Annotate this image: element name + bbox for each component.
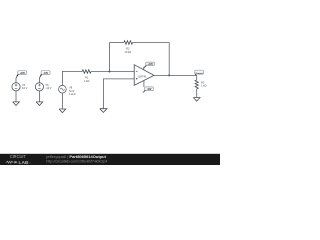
- net flag -10V on V2: [39, 71, 50, 79]
- ground below V2: [36, 102, 43, 106]
- net flag Output: [195, 70, 204, 75]
- ground below R3: [193, 98, 200, 102]
- wire: feedback left vertical: [109, 43, 111, 72]
- svg-text:Output: Output: [196, 72, 203, 75]
- wire: V2 top stub: [38, 78, 40, 83]
- wire: op-amp noninverting input to ground drop: [103, 79, 134, 109]
- svg-text:LM741: LM741: [138, 75, 147, 79]
- svg-text:+10V: +10V: [147, 64, 153, 66]
- wire: feedback right vertical down to output: [168, 43, 170, 76]
- resistor R1: [82, 70, 91, 83]
- op-amp OA1 LM741: [134, 65, 154, 86]
- wire: V2 bottom to ground: [38, 91, 40, 102]
- node junction at feedback tap: [109, 71, 111, 73]
- wire: V3 bottom to ground: [61, 93, 63, 109]
- wire: V3 top corner to R1 left: [62, 72, 82, 86]
- svg-text:10 V: 10 V: [22, 86, 28, 90]
- ground below V1: [13, 102, 20, 106]
- voltage source V1: [12, 83, 28, 91]
- svg-text:10 kΩ: 10 kΩ: [124, 50, 131, 54]
- voltage source V2: [35, 83, 52, 91]
- svg-text:-10 V: -10 V: [45, 86, 51, 90]
- wire: feedback top right horizontal: [133, 42, 170, 44]
- wire: V1 bottom to ground: [15, 91, 17, 102]
- sine source V3: [59, 85, 77, 96]
- resistor R3: [195, 75, 206, 97]
- ground at op-amp noninverting input: [100, 109, 107, 113]
- watermark bar: [0, 154, 220, 165]
- svg-text:http://circuitlab.com/c/5bv8hf: http://circuitlab.com/c/5bv8hf74k9c2p4: [46, 160, 107, 164]
- svg-text:1 kHz: 1 kHz: [69, 92, 76, 96]
- resistor R2: [124, 41, 133, 54]
- wire: V1 top stub: [15, 78, 17, 83]
- svg-text:CIRCUIT: CIRCUIT: [10, 154, 26, 159]
- svg-text:1 kΩ: 1 kΩ: [201, 84, 206, 88]
- svg-text:-10V: -10V: [43, 73, 48, 75]
- CircuitLab logo diode: [15, 161, 17, 163]
- svg-text:-10V: -10V: [147, 89, 152, 91]
- net flag V+ supply on op-amp: [143, 62, 154, 69]
- wire: op-amp output: [154, 74, 197, 76]
- net flag +10V on V1: [16, 71, 27, 79]
- svg-text:LAB: LAB: [19, 160, 30, 165]
- wire: feedback top left horizontal: [110, 42, 124, 44]
- ground below V3: [59, 109, 66, 113]
- wire: R1 right to op-amp inverting input: [91, 71, 134, 73]
- svg-text:+10V: +10V: [19, 73, 25, 75]
- net flag V- supply on op-amp: [143, 87, 154, 93]
- op-amp V+ pin stub: [143, 67, 145, 70]
- node junction on output wire: [168, 74, 170, 76]
- op-amp V- pin stub: [143, 80, 145, 87]
- CircuitLab logo resistor zigzag: [6, 161, 14, 163]
- svg-text:1 kΩ: 1 kΩ: [84, 79, 89, 83]
